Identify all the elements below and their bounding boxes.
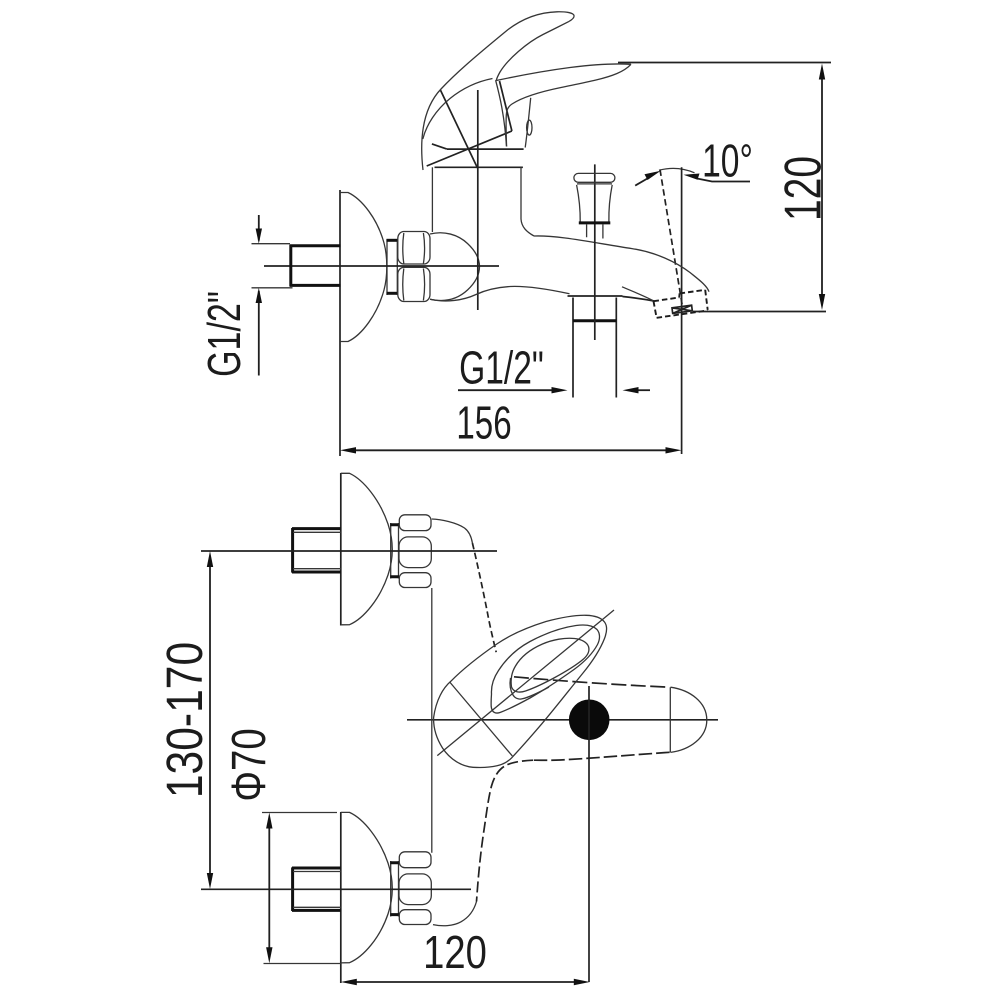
svg-text:130-170: 130-170 [155, 642, 213, 798]
svg-text:120: 120 [423, 927, 487, 978]
svg-text:Φ70: Φ70 [223, 728, 276, 801]
svg-text:120: 120 [773, 156, 832, 221]
svg-text:156: 156 [456, 398, 511, 448]
svg-text:G1/2": G1/2" [459, 343, 544, 394]
svg-text:G1/2": G1/2" [198, 291, 250, 377]
svg-text:10°: 10° [702, 136, 753, 187]
